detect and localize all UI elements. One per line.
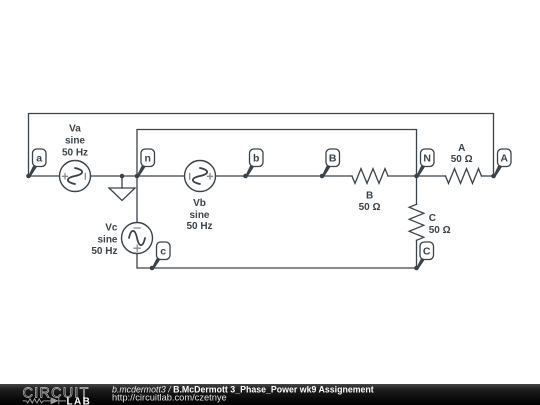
svg-text:C: C: [423, 246, 431, 258]
svg-text:http://circuitlab.com/czetnye: http://circuitlab.com/czetnye: [112, 393, 227, 403]
svg-text:n: n: [144, 153, 150, 165]
svg-text:LAB: LAB: [67, 396, 92, 405]
svg-text:Vb: Vb: [193, 198, 206, 209]
svg-text:Va: Va: [69, 124, 81, 135]
svg-text:B: B: [366, 190, 373, 201]
svg-text:sine: sine: [189, 210, 209, 221]
svg-text:sine: sine: [65, 136, 85, 147]
svg-text:b: b: [253, 153, 259, 165]
svg-text:sine: sine: [97, 235, 117, 246]
svg-text:50 Hz: 50 Hz: [62, 148, 88, 159]
svg-text:a: a: [36, 153, 42, 165]
svg-text:B: B: [329, 153, 337, 165]
svg-text:50 Hz: 50 Hz: [91, 246, 117, 257]
svg-text:50 Ω: 50 Ω: [359, 202, 381, 213]
svg-text:c: c: [160, 246, 166, 258]
svg-text:Vc: Vc: [105, 222, 118, 233]
svg-text:A: A: [458, 143, 465, 154]
svg-text:50 Ω: 50 Ω: [429, 225, 451, 236]
svg-text:50 Ω: 50 Ω: [451, 154, 473, 165]
svg-text:50 Hz: 50 Hz: [186, 221, 212, 232]
svg-text:N: N: [423, 153, 431, 165]
svg-text:C: C: [429, 213, 436, 224]
svg-text:A: A: [500, 153, 508, 165]
